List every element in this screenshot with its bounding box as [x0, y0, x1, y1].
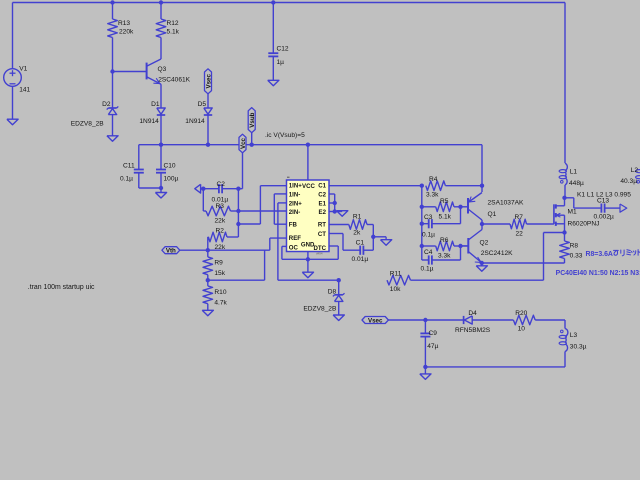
svg-text:C2: C2 [217, 181, 226, 188]
svg-text:22: 22 [516, 231, 524, 238]
svg-text:C13: C13 [597, 197, 609, 204]
svg-text:C4: C4 [424, 249, 433, 256]
svg-text:D8: D8 [328, 289, 337, 296]
svg-text:Vcc: Vcc [240, 137, 247, 149]
svg-text:R6: R6 [440, 237, 449, 244]
svg-text:DTC: DTC [313, 245, 326, 252]
svg-text:2IN+: 2IN+ [289, 200, 302, 207]
svg-text:22k: 22k [215, 218, 226, 225]
svg-text:R3: R3 [216, 203, 225, 210]
svg-text:4.7k: 4.7k [214, 300, 227, 307]
svg-text:5.1k: 5.1k [167, 29, 180, 36]
svg-text:0.002µ: 0.002µ [594, 213, 615, 220]
svg-text:R13: R13 [118, 20, 130, 27]
svg-text:VCC: VCC [302, 183, 315, 190]
svg-text:1µ: 1µ [277, 59, 285, 66]
svg-text:PC40EI40 N1:50 N2:15 N3:: PC40EI40 N1:50 N2:15 N3: [556, 270, 640, 277]
svg-text:C2: C2 [318, 191, 326, 198]
svg-text:D1: D1 [151, 101, 160, 108]
svg-text:L1: L1 [570, 168, 578, 175]
svg-text:CT: CT [318, 231, 326, 238]
svg-text:Vth: Vth [166, 248, 176, 255]
svg-text:Vsub: Vsub [249, 112, 256, 127]
svg-text:R12: R12 [167, 20, 179, 27]
svg-text:2SC4061K: 2SC4061K [158, 76, 190, 83]
svg-text:R6020PNJ: R6020PNJ [568, 221, 600, 228]
svg-text:D4: D4 [468, 310, 477, 317]
svg-text:C9: C9 [429, 330, 438, 337]
svg-text:C3: C3 [424, 214, 433, 221]
svg-text:R4: R4 [429, 176, 438, 183]
svg-text:Q3: Q3 [158, 66, 167, 73]
svg-text:R7: R7 [515, 214, 524, 221]
svg-text:10: 10 [518, 326, 526, 333]
svg-text:R10: R10 [214, 289, 226, 296]
svg-text:REF: REF [289, 235, 301, 242]
svg-text:L2: L2 [631, 167, 639, 174]
svg-text:E1: E1 [319, 200, 327, 207]
svg-text:0.1µ: 0.1µ [422, 231, 435, 238]
svg-text:Vsec: Vsec [368, 318, 383, 325]
svg-text:R8: R8 [570, 243, 579, 250]
svg-text:Q1: Q1 [488, 211, 497, 218]
svg-text:C10: C10 [164, 163, 176, 170]
svg-text:Q2: Q2 [480, 239, 489, 246]
svg-text:EDZV8_2B: EDZV8_2B [303, 306, 337, 313]
svg-text:141: 141 [19, 87, 30, 94]
svg-text:EDZV8_2B: EDZV8_2B [71, 120, 105, 127]
svg-text:tl494: tl494 [316, 251, 323, 255]
svg-text:C12: C12 [277, 46, 289, 53]
svg-text:220k: 220k [119, 29, 134, 36]
svg-text:1N914: 1N914 [185, 118, 205, 125]
svg-text:2SC2412K: 2SC2412K [481, 250, 513, 257]
svg-text:100µ: 100µ [164, 176, 179, 183]
svg-text:0.33: 0.33 [570, 253, 583, 260]
svg-text:40.3µ: 40.3µ [620, 178, 637, 185]
svg-text:R1: R1 [353, 213, 362, 220]
svg-text:10k: 10k [390, 286, 401, 293]
svg-text:15k: 15k [214, 270, 225, 277]
svg-text:1IN-: 1IN- [289, 191, 301, 198]
svg-text:2k: 2k [353, 229, 361, 236]
svg-text:R11: R11 [390, 271, 402, 278]
svg-text:R20: R20 [515, 310, 527, 317]
svg-text:.tran 100m startup uic: .tran 100m startup uic [28, 284, 95, 291]
svg-text:0.1µ: 0.1µ [120, 176, 133, 183]
svg-text:0.01µ: 0.01µ [352, 256, 369, 263]
svg-text:RFN5BM2S: RFN5BM2S [455, 327, 491, 334]
svg-text:RT: RT [318, 222, 326, 229]
svg-text:C11: C11 [123, 163, 135, 170]
svg-text:2SA1037AK: 2SA1037AK [488, 200, 525, 207]
svg-text:FB: FB [289, 222, 298, 229]
svg-text:5.1k: 5.1k [439, 213, 452, 220]
svg-text:0.1µ: 0.1µ [421, 266, 434, 273]
svg-text:1IN+: 1IN+ [289, 182, 302, 189]
svg-text:3.3k: 3.3k [438, 252, 451, 259]
svg-text:M1: M1 [568, 209, 577, 216]
svg-text:30.3µ: 30.3µ [570, 344, 587, 351]
svg-text:3.3k: 3.3k [426, 192, 439, 199]
svg-text:R9: R9 [214, 259, 223, 266]
svg-text:R2: R2 [216, 227, 225, 234]
svg-text:D5: D5 [198, 101, 207, 108]
svg-text:L3: L3 [570, 332, 578, 339]
svg-text:C1: C1 [318, 182, 326, 189]
svg-text:2IN-: 2IN- [289, 209, 301, 216]
svg-text:E2: E2 [319, 209, 327, 216]
svg-text:V1: V1 [19, 66, 27, 73]
svg-text:D2: D2 [102, 101, 111, 108]
svg-text:448µ: 448µ [569, 180, 584, 187]
svg-text:OC: OC [289, 245, 299, 252]
svg-text:Vsec: Vsec [205, 74, 212, 89]
svg-text:47µ: 47µ [427, 343, 438, 350]
svg-text:C1: C1 [356, 240, 365, 247]
svg-text:R8=3.6A: R8=3.6A [586, 251, 613, 258]
svg-text:.ic V(Vsub)=5: .ic V(Vsub)=5 [265, 132, 305, 139]
svg-text:R5: R5 [440, 198, 449, 205]
svg-text:1N914: 1N914 [139, 118, 159, 125]
